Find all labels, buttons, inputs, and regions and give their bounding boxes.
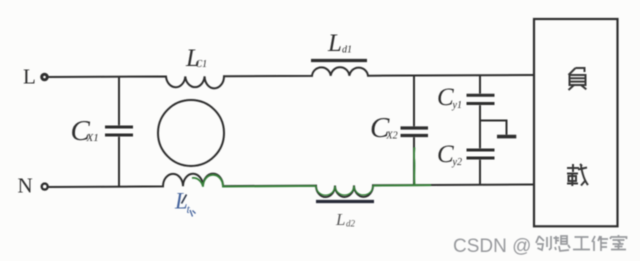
svg-text:C: C <box>437 141 454 168</box>
svg-text:X1: X1 <box>86 132 99 144</box>
svg-text:d1: d1 <box>342 45 352 56</box>
svg-text:N: N <box>18 174 33 198</box>
svg-text:X2: X2 <box>386 131 398 142</box>
svg-text:y2: y2 <box>452 157 462 168</box>
svg-text:L: L <box>23 65 36 89</box>
svg-text:CSDN @: CSDN @ <box>453 236 531 257</box>
svg-text:t: t <box>187 202 191 216</box>
svg-text:y1: y1 <box>452 100 462 111</box>
svg-text:C1: C1 <box>196 59 208 70</box>
svg-text:C: C <box>437 84 454 111</box>
svg-text:L: L <box>327 30 342 57</box>
svg-text:L: L <box>335 210 345 229</box>
svg-text:d2: d2 <box>346 219 356 229</box>
